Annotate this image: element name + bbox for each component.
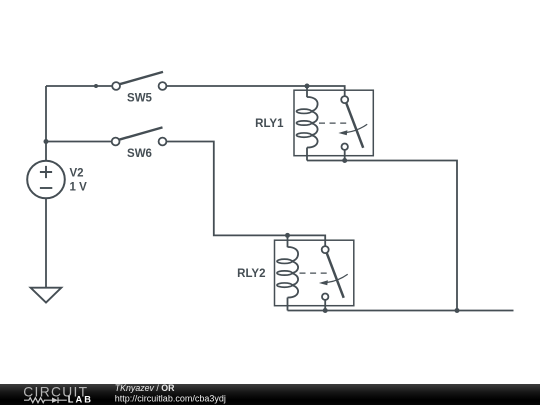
svg-text:RLY2: RLY2: [237, 268, 265, 280]
RLY2 dashed actuation line: [300, 272, 329, 274]
RLY2 body box: [275, 240, 354, 306]
label SW6: [127, 148, 152, 160]
svg-text:http://circuitlab.com/cba3ydj: http://circuitlab.com/cba3ydj: [115, 393, 226, 403]
RLY2 coil top lead: [287, 235, 289, 247]
RLY2 coil: [277, 247, 298, 298]
RLY1 switch contacts: [341, 96, 348, 150]
RLY1 switch lever: [346, 103, 363, 148]
footer bar: [0, 384, 540, 405]
label 1 V: [70, 182, 88, 194]
RLY2 switch bottom lead: [324, 300, 326, 311]
RLY2 coil bottom lead: [287, 298, 289, 311]
relay RLY1: [294, 86, 373, 161]
wire SW6 right to RLY2 switch top: [166, 142, 325, 247]
wire SW5 right to RLY1 switch top: [166, 86, 344, 96]
node junction dot RLY1 coil top: [305, 84, 310, 89]
voltage source V2: [27, 161, 65, 199]
svg-text:1 V: 1 V: [70, 182, 88, 194]
node junction dot RLY1 switch bottom: [342, 158, 347, 163]
label RLY2: [237, 268, 265, 280]
RLY2 switch lever: [327, 253, 344, 298]
RLY1 coil top lead: [306, 86, 308, 97]
svg-text:RLY1: RLY1: [255, 118, 284, 130]
label RLY1: [255, 118, 284, 130]
node junction dot bottom rail / right rail: [455, 308, 460, 313]
wire SW6 row left: [46, 141, 112, 143]
node small dot at SW5 left terminal: [94, 84, 98, 88]
svg-text:V2: V2: [70, 168, 84, 180]
diode symbol: [52, 397, 67, 403]
CircuitLab logo and credits: [0, 384, 540, 405]
RLY1 coil bottom lead: [306, 148, 308, 161]
RLY1 switch bottom lead: [344, 150, 346, 161]
svg-text:SW5: SW5: [127, 92, 153, 104]
svg-text:LAB: LAB: [68, 395, 93, 405]
RLY2 switch contacts: [322, 246, 329, 300]
switch SW6: [112, 127, 167, 145]
wire left vertical top (node to V2): [45, 86, 47, 161]
wire V2 bottom to ground: [45, 198, 47, 287]
RLY2 actuation arrow: [319, 274, 348, 285]
wire bottom rail: [288, 310, 514, 312]
node junction dot left rail / SW6 branch: [44, 139, 49, 144]
wire top horizontal to SW5: [46, 85, 112, 87]
switch SW5: [112, 72, 166, 90]
label V2: [70, 168, 84, 180]
ground: [31, 288, 62, 303]
RLY1 dashed actuation line: [319, 122, 348, 124]
svg-text:TKnyazev / OR: TKnyazev / OR: [115, 384, 175, 393]
node junction dot RLY2 coil top: [285, 233, 290, 238]
wire RLY1 bottom to right rail: [307, 161, 457, 311]
svg-text:SW6: SW6: [127, 148, 152, 160]
relay RLY2: [275, 235, 354, 310]
node junction dot RLY2 switch bottom: [323, 308, 328, 313]
RLY1 actuation arrow: [338, 124, 367, 135]
label SW5: [127, 92, 153, 104]
resistor symbol: [24, 398, 52, 403]
RLY1 coil: [297, 97, 318, 148]
RLY1 body box: [294, 90, 373, 156]
